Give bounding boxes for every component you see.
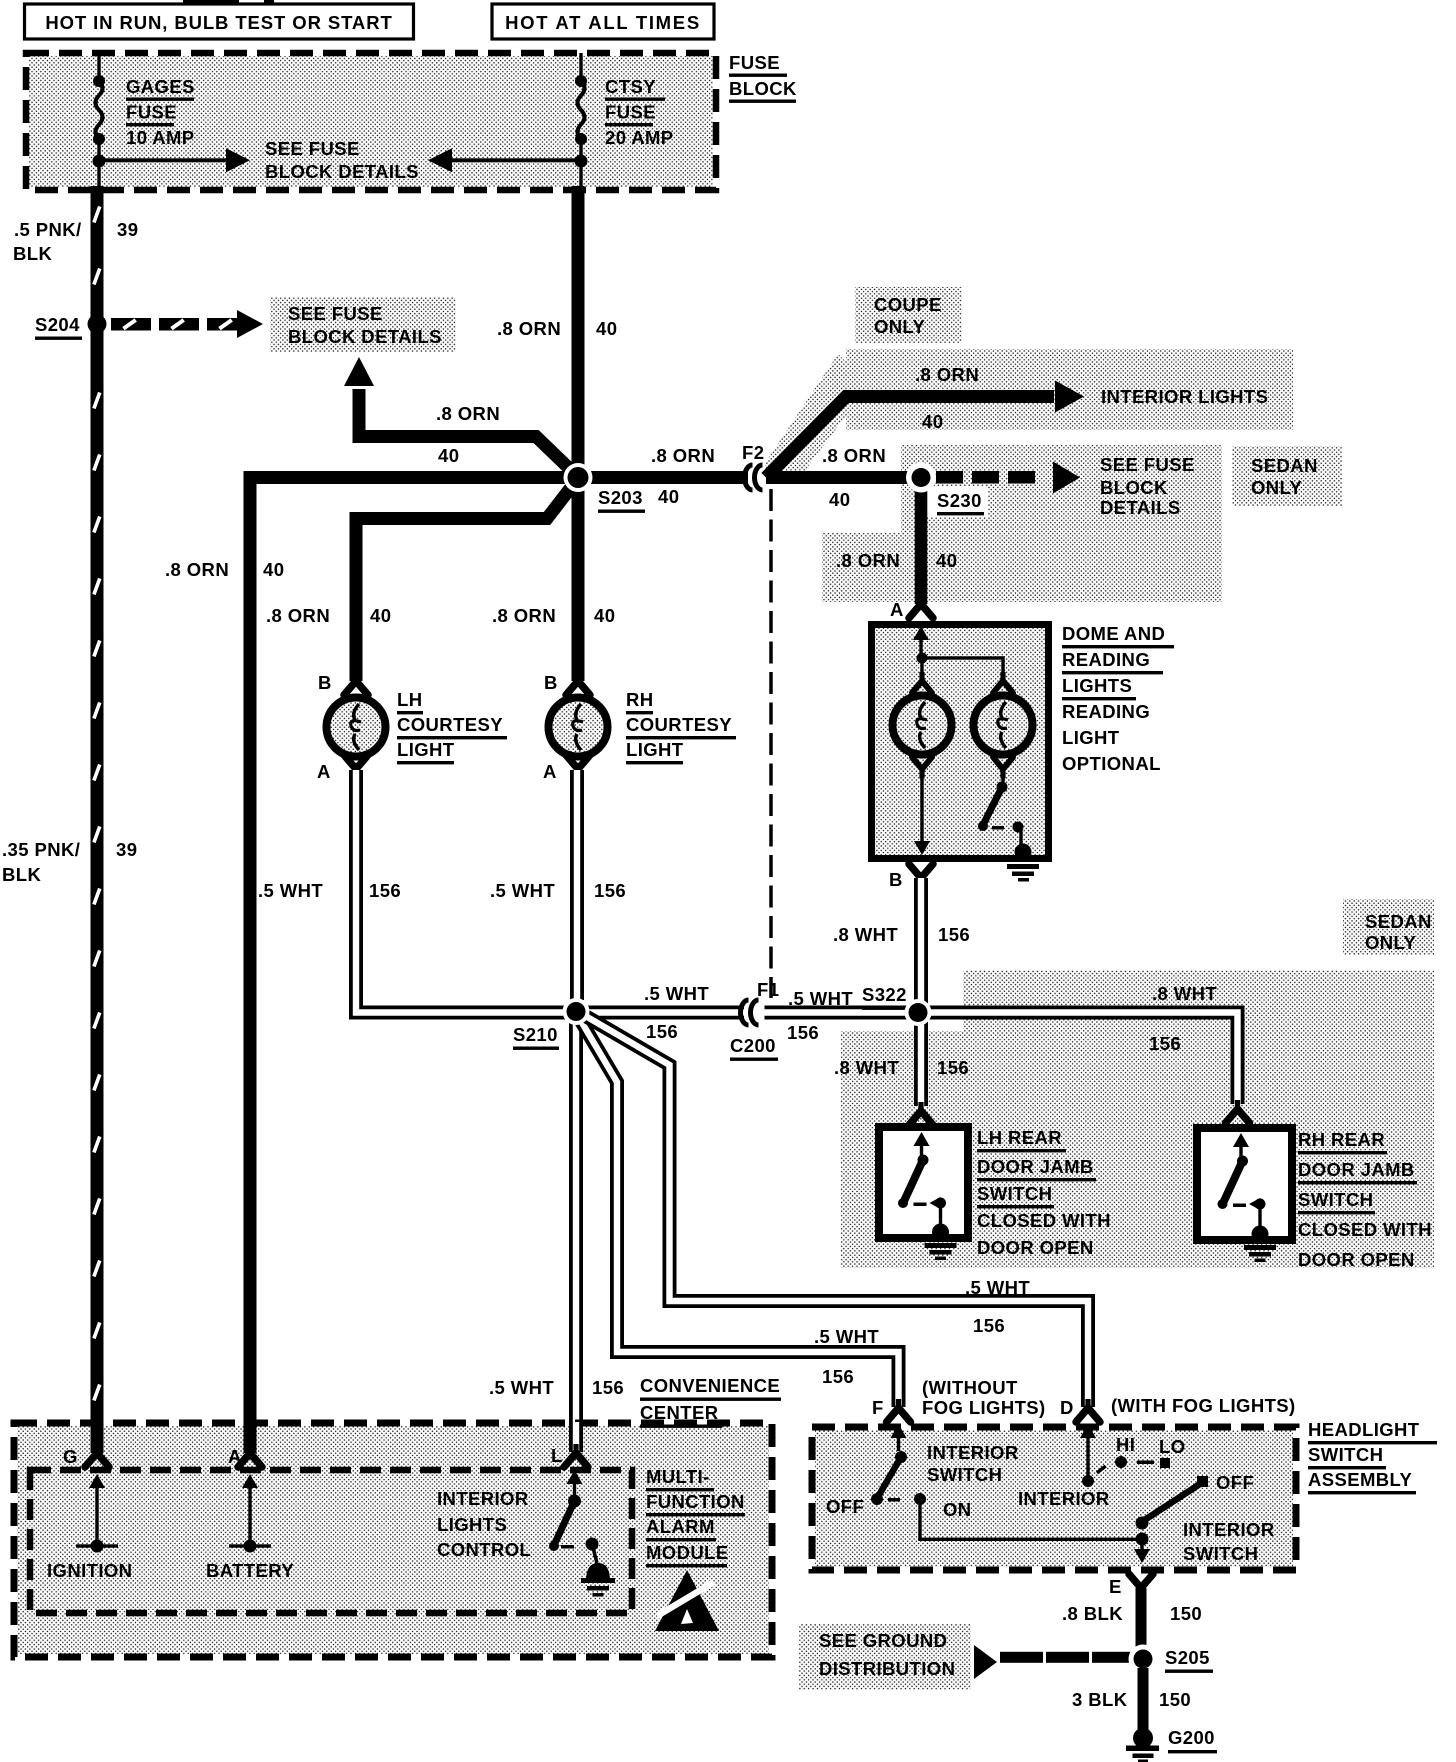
svg-text:SWITCH: SWITCH	[977, 1183, 1052, 1204]
svg-text:LH REAR: LH REAR	[977, 1127, 1062, 1148]
svg-text:ON: ON	[943, 1499, 972, 1520]
interior switch (with fog lights)	[1080, 1424, 1096, 1438]
svg-text:CENTER: CENTER	[640, 1402, 718, 1423]
svg-text:RH REAR: RH REAR	[1298, 1129, 1385, 1150]
wire .8 ORN 40 branch S203 to fuse block details arrow	[359, 389, 575, 474]
svg-text:40: 40	[370, 605, 391, 626]
svg-text:.8 ORN: .8 ORN	[651, 445, 715, 466]
fuse CTSY FUSE 20 AMP	[579, 53, 582, 81]
splice S205	[1129, 1645, 1158, 1674]
svg-text:S203: S203	[598, 487, 643, 508]
wire .8 WHT 156 S322 down to LH rear door jamb switch	[914, 1021, 928, 1106]
svg-text:READING: READING	[1062, 701, 1150, 722]
reading light switch	[997, 782, 1008, 793]
svg-text:.5 WHT: .5 WHT	[490, 880, 555, 901]
svg-text:ONLY: ONLY	[1251, 477, 1303, 498]
svg-text:INTERIOR: INTERIOR	[927, 1442, 1019, 1463]
svg-text:(WITHOUT: (WITHOUT	[922, 1377, 1018, 1398]
svg-text:.5 WHT: .5 WHT	[965, 1277, 1030, 1298]
svg-text:S322: S322	[862, 984, 907, 1005]
svg-text:156: 156	[937, 1057, 969, 1078]
halftone band interior lights (coupe)	[846, 349, 1293, 430]
svg-text:G: G	[63, 1446, 78, 1467]
svg-text:COURTESY: COURTESY	[626, 714, 732, 735]
svg-text:CLOSED WITH: CLOSED WITH	[977, 1210, 1111, 1231]
svg-text:156: 156	[822, 1366, 854, 1387]
svg-text:SEE FUSE: SEE FUSE	[288, 303, 383, 324]
ground (interior lights control)	[586, 1563, 610, 1581]
note SEDAN ONLY (upper)	[1232, 446, 1342, 506]
svg-text:FOG LIGHTS): FOG LIGHTS)	[922, 1397, 1046, 1418]
svg-text:.5 WHT: .5 WHT	[644, 983, 709, 1004]
node HOT IN RUN, BULB TEST OR START	[25, 4, 414, 39]
wire .8 ORN 40 F2 to S230	[766, 471, 913, 484]
svg-text:.8 ORN: .8 ORN	[497, 318, 561, 339]
dashed arrow S204 to see fuse block details	[111, 318, 151, 331]
svg-text:SEE FUSE: SEE FUSE	[1100, 454, 1195, 475]
svg-text:156: 156	[369, 880, 401, 901]
wire .5 WHT 156 LH courtesy A to S210	[356, 770, 568, 1013]
svg-text:FUNCTION: FUNCTION	[646, 1491, 745, 1512]
svg-text:ASSEMBLY: ASSEMBLY	[1308, 1469, 1413, 1490]
svg-text:B: B	[889, 869, 903, 890]
svg-text:.8 WHT: .8 WHT	[1152, 983, 1217, 1004]
component HEADLIGHT SWITCH ASSEMBLY box	[815, 1430, 1293, 1567]
component MULTI-FUNCTION ALARM MODULE box (inner dashed)	[30, 1470, 632, 1613]
svg-text:.5 PNK/: .5 PNK/	[14, 219, 82, 240]
svg-text:10 AMP: 10 AMP	[126, 127, 195, 148]
component CONVENIENCE CENTER box	[17, 1426, 769, 1654]
svg-text:.35 PNK/: .35 PNK/	[2, 839, 80, 860]
wire .8 WHT 156 dome B to S322	[914, 878, 928, 1004]
svg-text:READING: READING	[1062, 649, 1150, 670]
svg-text:LIGHT: LIGHT	[397, 739, 455, 760]
svg-text:LIGHTS: LIGHTS	[1062, 675, 1132, 696]
svg-text:GAGES: GAGES	[126, 76, 195, 97]
svg-text:40: 40	[658, 486, 679, 507]
svg-text:.8 ORN: .8 ORN	[436, 403, 500, 424]
dashed wire F2 to F1 (coupe/sedan split)	[769, 489, 773, 998]
svg-text:.8 ORN: .8 ORN	[915, 364, 979, 385]
svg-text:HOT IN RUN, BULB TEST OR START: HOT IN RUN, BULB TEST OR START	[45, 12, 392, 33]
svg-text:MULTI-: MULTI-	[646, 1466, 710, 1487]
wire .5 PNK/BLK 39 from GAGES fuse to MFAM terminal G (hatched)	[91, 186, 104, 1452]
svg-text:SEE FUSE: SEE FUSE	[265, 138, 360, 159]
svg-text:MODULE: MODULE	[646, 1542, 729, 1563]
svg-text:DETAILS: DETAILS	[1100, 497, 1181, 518]
ground (dome box)	[1015, 844, 1032, 861]
note SEDAN ONLY (lower)	[1343, 899, 1434, 955]
splice S203	[564, 463, 593, 492]
svg-text:INTERIOR: INTERIOR	[1018, 1488, 1110, 1509]
svg-text:BLOCK: BLOCK	[729, 78, 797, 99]
dashed arrow S230 to see fuse block details	[936, 471, 963, 484]
svg-text:DOME AND: DOME AND	[1062, 623, 1165, 644]
svg-text:(WITH FOG LIGHTS): (WITH FOG LIGHTS)	[1111, 1395, 1296, 1416]
interior switch (without fog lights)	[891, 1424, 907, 1438]
svg-text:156: 156	[938, 924, 970, 945]
svg-text:156: 156	[646, 1021, 678, 1042]
wire .8 BLK 150 headlight switch E to S205	[1136, 1588, 1147, 1650]
svg-text:150: 150	[1170, 1603, 1202, 1624]
svg-text:COUPE: COUPE	[874, 294, 942, 315]
svg-text:A: A	[890, 599, 904, 620]
svg-text:40: 40	[594, 605, 615, 626]
svg-text:156: 156	[592, 1377, 624, 1398]
svg-text:39: 39	[117, 219, 138, 240]
svg-text:RH: RH	[626, 689, 654, 710]
svg-text:SEDAN: SEDAN	[1365, 911, 1432, 932]
svg-text:S204: S204	[35, 314, 80, 335]
splice S210	[563, 998, 590, 1025]
svg-text:BLK: BLK	[13, 243, 52, 264]
svg-text:40: 40	[596, 318, 617, 339]
svg-text:DISTRIBUTION: DISTRIBUTION	[819, 1658, 955, 1679]
svg-text:LIGHT: LIGHT	[1062, 727, 1120, 748]
svg-text:40: 40	[263, 559, 284, 580]
svg-text:BLOCK DETAILS: BLOCK DETAILS	[288, 326, 442, 347]
svg-text:OFF: OFF	[826, 1496, 864, 1517]
svg-text:A: A	[317, 761, 331, 782]
svg-text:CONVENIENCE: CONVENIENCE	[640, 1375, 780, 1396]
svg-text:39: 39	[116, 839, 137, 860]
note SEE GROUND DISTRIBUTION	[799, 1624, 971, 1690]
dashed arrow see ground distribution	[974, 1645, 997, 1679]
svg-text:LIGHTS: LIGHTS	[437, 1514, 507, 1535]
svg-text:SEDAN: SEDAN	[1251, 455, 1318, 476]
arrow to see fuse block details (left)	[99, 158, 226, 162]
node HOT AT ALL TIMES	[492, 4, 714, 39]
svg-text:CTSY: CTSY	[605, 76, 656, 97]
svg-text:LH: LH	[397, 689, 422, 710]
wire .5 WHT 156 S210 down to MFAM terminal L	[569, 1020, 583, 1452]
svg-text:.5 WHT: .5 WHT	[788, 988, 853, 1009]
svg-text:COURTESY: COURTESY	[397, 714, 503, 735]
svg-text:156: 156	[594, 880, 626, 901]
reading bulb right	[993, 681, 1013, 693]
scan fragment top edge	[183, 0, 239, 4]
svg-text:BLK: BLK	[2, 864, 41, 885]
svg-text:S205: S205	[1165, 1647, 1210, 1668]
wire .8 ORN 40 S203 left/down to MFAM terminal A	[250, 478, 578, 1453]
svg-text:40: 40	[438, 445, 459, 466]
svg-text:.5 WHT: .5 WHT	[489, 1377, 554, 1398]
svg-text:SWITCH: SWITCH	[1308, 1444, 1383, 1465]
svg-text:ALARM: ALARM	[646, 1516, 715, 1537]
svg-text:BLOCK: BLOCK	[1100, 477, 1168, 498]
wire .5 WHT 156 C200 to S322	[765, 1006, 911, 1020]
wire .5 WHT 156 S210 to headlight switch F (without fog lights)	[578, 1016, 899, 1407]
svg-text:C200: C200	[730, 1035, 776, 1056]
svg-text:F2: F2	[742, 442, 764, 463]
svg-text:INTERIOR: INTERIOR	[437, 1488, 529, 1509]
svg-text:F1: F1	[757, 979, 779, 1000]
wire .8 ORN 40 CTSY fuse down to S203 and to RH courtesy light	[572, 186, 585, 681]
svg-text:SEE GROUND: SEE GROUND	[819, 1630, 947, 1651]
svg-text:SWITCH: SWITCH	[1298, 1189, 1373, 1210]
wire .8 ORN 40 F2 to INTERIOR LIGHTS (coupe only)	[766, 397, 1054, 478]
svg-text:SWITCH: SWITCH	[1183, 1543, 1258, 1564]
halftone band S230 see fuse block details (sedan)	[901, 445, 1222, 533]
svg-text:.5 WHT: .5 WHT	[258, 880, 323, 901]
svg-text:LO: LO	[1159, 1436, 1186, 1457]
note COUPE ONLY	[855, 287, 962, 343]
svg-text:CLOSED WITH: CLOSED WITH	[1298, 1219, 1432, 1240]
switch RH REAR DOOR JAMB SWITCH	[1226, 1109, 1250, 1123]
splice S322	[905, 999, 932, 1026]
svg-text:.8 WHT: .8 WHT	[833, 924, 898, 945]
halftone band sedan only (door jamb switches)	[963, 970, 1434, 1031]
svg-text:.8 ORN: .8 ORN	[492, 605, 556, 626]
dome bulb left	[912, 681, 932, 693]
svg-text:40: 40	[829, 489, 850, 510]
svg-text:40: 40	[936, 550, 957, 571]
wire 3 BLK 150 S205 to G200	[1138, 1668, 1149, 1730]
svg-text:HOT AT ALL TIMES: HOT AT ALL TIMES	[505, 12, 701, 33]
svg-text:IGNITION: IGNITION	[47, 1560, 132, 1581]
switch LH REAR DOOR JAMB SWITCH	[909, 1111, 933, 1125]
ground G200	[1133, 1728, 1153, 1748]
svg-text:INTERIOR LIGHTS: INTERIOR LIGHTS	[1101, 386, 1268, 407]
component DOME AND READING LIGHTS box	[872, 625, 1049, 859]
svg-text:HEADLIGHT: HEADLIGHT	[1308, 1419, 1420, 1440]
ESD sensitive symbol	[655, 1570, 719, 1631]
svg-text:FUSE: FUSE	[605, 102, 656, 123]
svg-text:ONLY: ONLY	[874, 316, 926, 337]
svg-text:156: 156	[973, 1315, 1005, 1336]
wire .5 WHT 156 RH courtesy A to S210	[570, 770, 584, 1000]
svg-text:ONLY: ONLY	[1365, 932, 1417, 953]
svg-text:BATTERY: BATTERY	[206, 1560, 294, 1581]
splice S204	[88, 315, 107, 334]
svg-text:G200: G200	[1168, 1727, 1215, 1748]
svg-text:OFF: OFF	[1216, 1472, 1254, 1493]
svg-text:F: F	[872, 1397, 884, 1418]
wire .8 ORN 40 S203 to LH courtesy light	[356, 479, 578, 681]
wire .5 WHT 156 S210 to headlight switch D (with fog lights)	[582, 1014, 1088, 1407]
svg-text:.5 WHT: .5 WHT	[814, 1326, 879, 1347]
svg-text:.8 ORN: .8 ORN	[266, 605, 330, 626]
note SEE FUSE BLOCK DETAILS (at S204)	[270, 297, 456, 352]
svg-text:S210: S210	[513, 1024, 558, 1045]
svg-text:.8 ORN: .8 ORN	[822, 445, 886, 466]
svg-text:DOOR OPEN: DOOR OPEN	[977, 1237, 1094, 1258]
fuse GAGES FUSE 10 AMP	[97, 53, 100, 81]
splice S230	[906, 463, 936, 493]
svg-text:B: B	[318, 672, 332, 693]
wire stubs into convenience center	[91, 1424, 104, 1453]
svg-text:OPTIONAL: OPTIONAL	[1062, 753, 1161, 774]
wire .8 WHT 156 S322 right to RH rear door jamb switch	[926, 1013, 1238, 1105]
svg-text:A: A	[543, 761, 557, 782]
svg-text:DOOR OPEN: DOOR OPEN	[1298, 1249, 1415, 1270]
svg-text:CONTROL: CONTROL	[437, 1539, 531, 1560]
wire .8 ORN 40 S203 to F2	[578, 471, 748, 484]
svg-text:3 BLK: 3 BLK	[1072, 1689, 1128, 1710]
svg-text:HI: HI	[1116, 1434, 1135, 1455]
svg-text:20 AMP: 20 AMP	[605, 127, 674, 148]
svg-text:FUSE: FUSE	[126, 102, 177, 123]
svg-text:D: D	[1060, 1397, 1074, 1418]
svg-text:LIGHT: LIGHT	[626, 739, 684, 760]
svg-text:.8 WHT: .8 WHT	[834, 1057, 899, 1078]
fuse block box	[29, 56, 713, 187]
dome lights internal feed	[913, 626, 929, 640]
svg-text:40: 40	[922, 411, 943, 432]
svg-text:.8 BLK: .8 BLK	[1062, 1603, 1123, 1624]
svg-text:156: 156	[1149, 1033, 1181, 1054]
svg-text:156: 156	[787, 1022, 819, 1043]
svg-text:FUSE: FUSE	[729, 52, 780, 73]
svg-text:DOOR JAMB: DOOR JAMB	[977, 1156, 1094, 1177]
svg-text:INTERIOR: INTERIOR	[1183, 1519, 1275, 1540]
svg-text:150: 150	[1159, 1689, 1191, 1710]
wire .8 ORN 40 S230 to dome lights terminal A	[915, 484, 928, 604]
svg-text:B: B	[544, 672, 558, 693]
svg-text:BLOCK DETAILS: BLOCK DETAILS	[265, 161, 419, 182]
svg-text:.8 ORN: .8 ORN	[836, 550, 900, 571]
svg-text:DOOR JAMB: DOOR JAMB	[1298, 1159, 1415, 1180]
svg-text:E: E	[1109, 1576, 1122, 1597]
svg-text:L: L	[551, 1445, 563, 1466]
svg-text:SWITCH: SWITCH	[927, 1464, 1002, 1485]
arrow to see fuse block details (right)	[452, 158, 581, 162]
terminal A dome lights	[909, 604, 933, 618]
svg-text:.8 ORN: .8 ORN	[165, 559, 229, 580]
svg-text:S230: S230	[937, 490, 982, 511]
wire .5 WHT 156 S210 to C200	[584, 1006, 744, 1020]
